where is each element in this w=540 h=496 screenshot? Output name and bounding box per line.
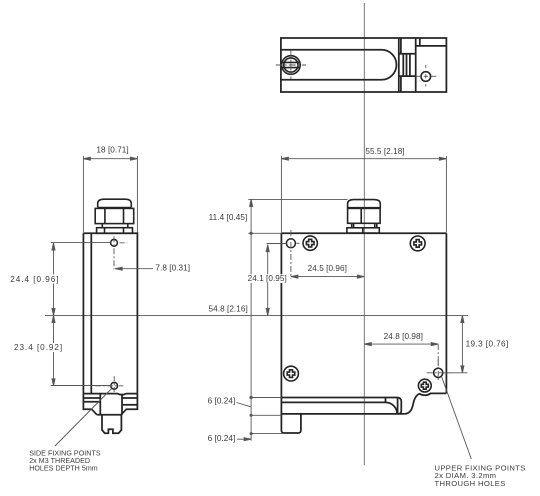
hinge vertical full left	[398, 38, 400, 92]
side view boss block	[100, 394, 122, 415]
front phillips screw upper left	[303, 236, 317, 250]
dimension 24.8 [0.98]	[364, 343, 438, 367]
top view bracket screw hole	[421, 72, 431, 82]
gland dome base heavy line	[98, 207, 132, 209]
side view foot	[102, 415, 121, 433]
front gland dome base heavy line	[348, 207, 381, 209]
front gland dome	[348, 200, 381, 209]
front body top edge	[281, 232, 446, 234]
front body left edge	[280, 233, 282, 430]
dimension 54.8 [2.16]	[250, 233, 253, 399]
hinge vertical full right	[415, 38, 417, 92]
upper fixing points leader	[442, 377, 472, 459]
hinge vertical partial	[400, 38, 402, 54]
dimension 24.1 [0.95]	[266, 244, 286, 316]
front flange inner step line	[281, 401, 385, 403]
front flange top line	[281, 397, 397, 399]
svg-text:6 [0.24]: 6 [0.24]	[208, 397, 236, 406]
front flange nose edge	[397, 398, 399, 414]
side view lower M3 hole	[111, 382, 118, 389]
side view body rectangle	[83, 233, 137, 393]
dimension 18 [0.71]	[83, 156, 137, 233]
front phillips screw upper right	[410, 236, 425, 251]
top view slotted screw crosshair	[276, 51, 306, 80]
bracket vertical short	[419, 38, 421, 46]
front phillips screw lower right	[418, 379, 431, 392]
side view lower hole crosshair	[95, 376, 123, 392]
gland neck	[102, 224, 128, 228]
front gland base	[347, 228, 379, 233]
side fixing points leader	[55, 389, 112, 447]
front foot	[281, 414, 301, 433]
gland locknut washer	[97, 228, 133, 234]
top view outer body rectangle	[281, 38, 447, 92]
dimension 11.4 [0.45]	[248, 199, 347, 235]
front flange bottom line	[281, 413, 404, 415]
front gland legs	[352, 223, 377, 228]
side view inner wall line	[90, 233, 92, 393]
front gland	[347, 200, 380, 234]
front upper fixing hole crosshair	[427, 360, 452, 381]
gland dome	[98, 199, 132, 207]
front flange inner fillet	[386, 402, 398, 414]
vertical centerline	[363, 3, 365, 465]
dimension 24.5 [0.96]	[291, 275, 364, 278]
hinge pin lines	[402, 54, 404, 76]
bracket top strip line	[416, 45, 447, 47]
front upper-left through hole	[286, 239, 295, 248]
dimension 6 [0.24] upper	[237, 396, 285, 441]
top view lid capsule	[281, 50, 397, 80]
svg-text:7.8 [0.31]: 7.8 [0.31]	[155, 263, 190, 272]
gland hex nut	[95, 208, 134, 223]
svg-text:24.4 [0.96]: 24.4 [0.96]	[10, 275, 59, 284]
front gland nut	[348, 208, 381, 223]
dimension 19.3 [0.76]	[444, 316, 468, 373]
dimension 55.5 [2.18]	[281, 156, 446, 233]
front upper-left hole centerline	[291, 230, 300, 279]
front phillips screw lower left	[284, 366, 299, 381]
svg-text:23.4 [0.92]: 23.4 [0.92]	[14, 343, 63, 352]
dimension 23.4 [0.92]	[51, 316, 111, 386]
svg-text:HOLES DEPTH 5mm: HOLES DEPTH 5mm	[29, 464, 98, 472]
side view gland	[95, 199, 134, 233]
dimension 7.8 [0.31] leader	[115, 267, 153, 270]
svg-text:6 [0.24]: 6 [0.24]	[208, 434, 236, 443]
svg-text:11.4 [0.45]: 11.4 [0.45]	[209, 213, 248, 222]
svg-text:55.5 [2.18]: 55.5 [2.18]	[365, 147, 404, 156]
svg-text:THROUGH HOLES: THROUGH HOLES	[435, 479, 506, 488]
side view upper M3 hole	[111, 239, 118, 246]
front profile S-curve and boss arc	[405, 393, 447, 414]
dimension 6 [0.24] lower	[237, 438, 251, 441]
side view bottom edge with notch	[83, 394, 137, 395]
front flange step tick	[385, 398, 387, 403]
front body right edge	[445, 233, 447, 393]
dimension 24.4 [0.96]	[51, 243, 111, 316]
svg-text:18 [0.71]: 18 [0.71]	[96, 146, 128, 155]
side view flange bottom	[83, 394, 137, 415]
side view flange block	[83, 397, 100, 399]
front upper fixing through hole	[434, 368, 443, 377]
svg-text:24.1 [0.95]: 24.1 [0.95]	[248, 274, 287, 283]
horizontal centerline	[45, 315, 468, 317]
top view slotted screw	[282, 56, 301, 75]
svg-text:19.3 [0.76]: 19.3 [0.76]	[466, 340, 509, 349]
front flange nose round	[398, 398, 402, 414]
svg-text:54.8 [2.16]: 54.8 [2.16]	[209, 304, 248, 313]
hinge horizontals	[399, 53, 416, 55]
svg-text:24.8 [0.98]: 24.8 [0.98]	[384, 332, 423, 341]
svg-text:24.5 [0.96]: 24.5 [0.96]	[308, 264, 347, 273]
side view upper hole crosshair	[114, 236, 127, 269]
top view bracket screw crosshair	[416, 65, 437, 87]
